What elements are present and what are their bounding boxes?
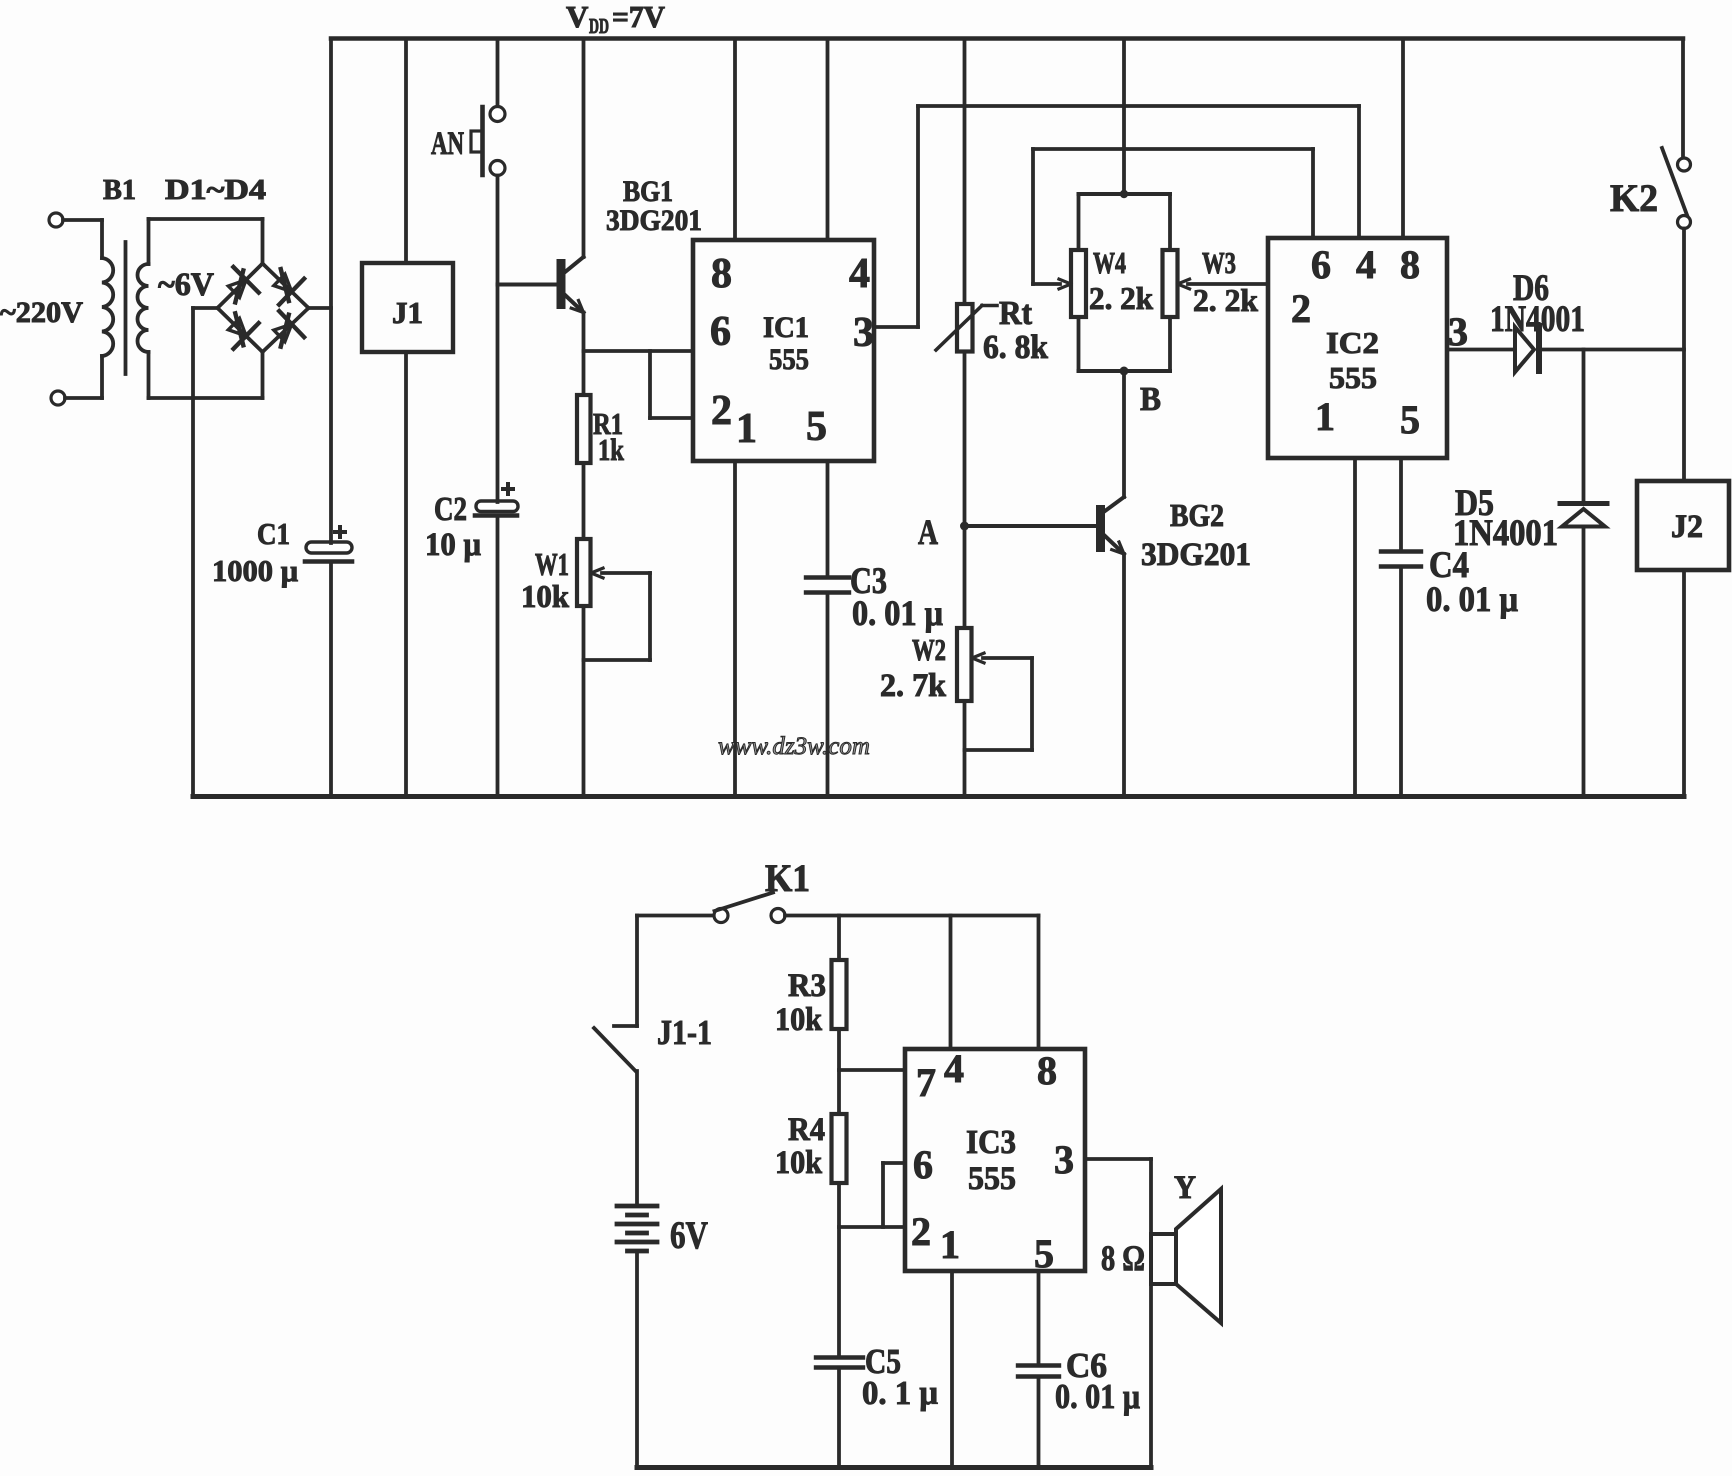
svg-text:6: 6 — [913, 1142, 933, 1187]
svg-text:8: 8 — [1037, 1048, 1057, 1093]
svg-text:5: 5 — [1400, 397, 1420, 442]
svg-text:555: 555 — [1329, 360, 1377, 395]
svg-text:10k: 10k — [775, 1002, 823, 1038]
svg-text:DD: DD — [589, 14, 609, 38]
svg-text:8: 8 — [711, 251, 732, 297]
svg-text:1: 1 — [1315, 394, 1335, 439]
svg-text:W4: W4 — [1093, 245, 1126, 280]
svg-text:6V: 6V — [670, 1214, 708, 1257]
svg-text:2: 2 — [1291, 286, 1311, 331]
svg-text:3: 3 — [1054, 1137, 1074, 1182]
svg-text:4: 4 — [944, 1046, 964, 1091]
svg-text:5: 5 — [806, 404, 827, 450]
svg-text:B: B — [1140, 381, 1161, 418]
svg-text:V: V — [566, 0, 589, 34]
svg-text:2: 2 — [711, 388, 732, 434]
svg-text:www.dz3w.com: www.dz3w.com — [718, 733, 870, 760]
svg-text:W3: W3 — [1202, 245, 1236, 280]
svg-text:0. 01 μ: 0. 01 μ — [852, 593, 943, 633]
svg-text:J1-1: J1-1 — [657, 1013, 712, 1052]
svg-text:B1: B1 — [103, 174, 136, 206]
svg-text:3: 3 — [1448, 309, 1468, 354]
svg-text:0. 1 μ: 0. 1 μ — [862, 1375, 938, 1412]
svg-text:555: 555 — [968, 1161, 1016, 1197]
svg-text:1: 1 — [736, 406, 757, 452]
svg-text:3: 3 — [853, 310, 874, 356]
svg-text:8: 8 — [1400, 242, 1420, 287]
svg-text:10 μ: 10 μ — [425, 527, 481, 563]
svg-text:W2: W2 — [912, 632, 946, 667]
svg-text:1000 μ: 1000 μ — [212, 553, 298, 588]
svg-text:1N4001: 1N4001 — [1490, 299, 1585, 340]
svg-text:D1~D4: D1~D4 — [165, 174, 266, 206]
svg-text:J1: J1 — [392, 295, 423, 330]
svg-text:IC3: IC3 — [966, 1124, 1016, 1161]
svg-text:0. 01 μ: 0. 01 μ — [1055, 1377, 1140, 1416]
svg-text:R3: R3 — [788, 968, 826, 1004]
svg-text:Y: Y — [1174, 1170, 1196, 1206]
svg-text:2. 7k: 2. 7k — [880, 668, 947, 704]
svg-text:K1: K1 — [765, 857, 810, 900]
svg-text:C1: C1 — [257, 516, 290, 551]
svg-text:555: 555 — [769, 343, 809, 376]
svg-text:~6V: ~6V — [158, 267, 214, 303]
svg-text:IC2: IC2 — [1326, 325, 1379, 360]
svg-text:8 Ω: 8 Ω — [1101, 1238, 1145, 1278]
svg-text:2: 2 — [911, 1209, 931, 1254]
svg-text:6. 8k: 6. 8k — [983, 329, 1048, 366]
svg-text:K2: K2 — [1610, 177, 1658, 220]
svg-text:Rt: Rt — [999, 295, 1033, 332]
svg-text:=7V: =7V — [612, 0, 666, 34]
svg-text:1k: 1k — [598, 432, 625, 467]
svg-text:J2: J2 — [1671, 509, 1703, 545]
svg-text:10k: 10k — [775, 1145, 823, 1181]
svg-text:3DG201: 3DG201 — [606, 204, 702, 237]
svg-text:W1: W1 — [535, 546, 569, 582]
svg-text:AN: AN — [431, 126, 464, 162]
svg-text:IC1: IC1 — [763, 311, 809, 344]
svg-text:5: 5 — [1034, 1231, 1054, 1276]
svg-text:C2: C2 — [434, 491, 467, 528]
svg-text:4: 4 — [1356, 242, 1376, 287]
svg-text:4: 4 — [849, 251, 870, 297]
svg-text:6: 6 — [1311, 242, 1331, 287]
svg-text:1: 1 — [940, 1222, 960, 1267]
svg-text:6: 6 — [710, 309, 731, 355]
svg-text:~220V: ~220V — [0, 296, 83, 329]
svg-text:10k: 10k — [521, 578, 569, 614]
svg-text:R4: R4 — [788, 1112, 825, 1148]
svg-text:3DG201: 3DG201 — [1141, 537, 1251, 573]
svg-text:0. 01 μ: 0. 01 μ — [1426, 579, 1518, 619]
svg-text:A: A — [918, 512, 938, 552]
svg-text:2. 2k: 2. 2k — [1193, 282, 1258, 318]
svg-text:7: 7 — [916, 1060, 936, 1105]
svg-text:2. 2k: 2. 2k — [1089, 280, 1153, 316]
svg-text:BG2: BG2 — [1170, 497, 1224, 533]
